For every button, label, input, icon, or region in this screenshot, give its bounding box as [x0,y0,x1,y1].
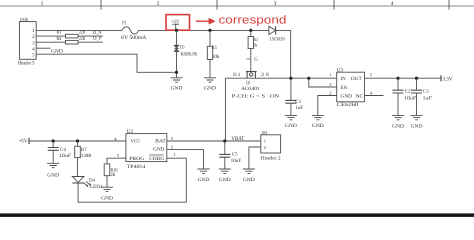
wire pin3 to R4 [36,41,65,43]
wire node D_N [78,35,103,37]
svg-text:GND: GND [171,85,183,91]
svg-text:10uF: 10uF [231,158,242,164]
svg-text:GND: GND [47,172,59,178]
charger U2 [114,129,175,170]
node junction EN [307,77,310,80]
svg-text:R4: R4 [57,36,62,42]
svg-text:GND: GND [153,147,165,153]
svg-text:1: 1 [32,28,35,34]
wire pin2 to R1 [36,35,65,37]
wire pin1 +5V rail [36,29,122,31]
svg-text:1uF: 1uF [295,105,303,111]
node junction C3 [415,77,418,80]
svg-text:2 S: 2 S [261,72,269,78]
svg-text:2: 2 [171,144,173,149]
svg-text:2: 2 [329,90,331,95]
svg-text:GND: GND [312,123,324,129]
svg-text:2: 2 [264,145,266,150]
svg-text:CHRG: CHRG [149,156,164,162]
svg-text:C1: C1 [295,99,301,105]
svg-text:D3: D3 [180,45,185,51]
svg-text:GND: GND [204,85,216,91]
svg-text:CE6260: CE6260 [337,102,359,108]
svg-text:P-CH: G < S ON: P-CH: G < S ON [232,93,280,99]
fuse F1 [121,20,146,41]
svg-text:4: 4 [391,1,394,7]
ground under R10 [101,187,113,201]
svg-text:GND: GND [243,177,255,183]
ground under U2 [198,169,210,183]
svg-text:GND: GND [101,195,113,201]
wire gate G [250,49,252,72]
wire EN link [309,78,337,87]
sheet top border [0,5,474,7]
svg-text:D_N: D_N [93,30,102,36]
svg-text:Q1: Q1 [246,80,251,86]
wire OUT rail [365,77,442,79]
svg-text:D 3: D 3 [233,72,240,78]
red highlight box [166,15,190,31]
svg-text:GND: GND [219,177,231,183]
diode D2 1N5819 [269,26,285,43]
regulator U3 [329,67,373,108]
svg-text:OUT: OUT [351,76,362,82]
svg-text:C5: C5 [232,152,238,158]
svg-text:GND: GND [198,177,210,183]
ground under U3 [312,115,324,128]
ground under JP1 [243,169,255,183]
node junction C2 [396,77,399,80]
svg-text:EN: EN [341,85,348,91]
svg-text:1N5819: 1N5819 [269,37,285,43]
node junction at R3 [249,29,252,32]
svg-text:C4: C4 [60,147,66,153]
pin 1 dash [246,58,250,60]
svg-text:5: 5 [370,72,373,77]
power port +5V top [171,19,179,30]
svg-text:BAT: BAT [155,139,166,145]
svg-text:GND: GND [285,123,297,129]
svg-text:10k: 10k [212,54,220,60]
node junction pin5/D3 [175,71,178,74]
header JP1 [261,131,281,162]
svg-text:6V 500mA: 6V 500mA [121,35,146,41]
svg-text:3.3V: 3.3V [443,77,453,83]
wire U2 GND pin [167,150,204,169]
wire R7 to LED [77,158,79,177]
power port 3.3V [441,75,453,82]
svg-text:D_P: D_P [93,36,102,42]
ground under C5 [219,169,231,183]
svg-text:3: 3 [274,1,277,7]
ground under R5 [204,78,216,92]
zone tick 1 [100,0,102,10]
resistor R7 [75,141,92,159]
resistor R10 [104,164,118,178]
svg-text:C3: C3 [423,89,429,95]
ground under C3 [411,115,423,129]
node junction C4 [52,139,55,142]
connector USB1 [18,17,36,66]
svg-text:VBAT: VBAT [231,136,244,142]
svg-text:22R: 22R [79,30,86,36]
svg-text:GND: GND [51,49,63,55]
svg-text:GND: GND [341,93,353,99]
capacitor C2 [393,78,417,115]
ground under C2 [392,115,404,129]
node junction VBAT [223,139,226,142]
svg-text:AO3401: AO3401 [241,86,260,92]
svg-text:2K: 2K [111,172,116,178]
wire JP1 pin2 to ground [249,147,261,169]
transistor Q1 [232,72,280,100]
wire rail after fuse [138,29,269,31]
node junction C1 [289,77,292,80]
wire R3 top [250,30,252,36]
wire VSYS rail [225,77,336,79]
wire Q1 drain to VBAT [224,78,226,141]
capacitor C4 [48,141,72,163]
red arrow [196,18,216,25]
svg-text:5: 5 [32,52,35,58]
resistor R3 [248,37,258,49]
svg-text:3: 3 [171,136,174,141]
svg-text:22R: 22R [79,36,86,42]
diode D3 TVS [174,45,198,58]
wire LED cathode loop to CHRG [78,158,186,202]
capacitor C5 [219,141,241,169]
svg-text:+5V: +5V [19,139,28,145]
svg-text:3: 3 [32,40,35,46]
wire node D_P [78,41,103,43]
svg-text:330R: 330R [81,153,92,159]
svg-text:2: 2 [157,1,160,7]
svg-text:1: 1 [264,139,266,144]
wire R5 top [209,30,211,46]
resistor R5 [207,45,220,60]
svg-text:5: 5 [117,153,120,158]
capacitor C3 [411,78,432,115]
svg-text:F1: F1 [122,20,127,26]
svg-text:GND: GND [411,123,423,129]
node junction at R5 [208,29,211,32]
svg-text:1: 1 [41,1,44,7]
svg-text:NC: NC [356,93,365,99]
svg-text:10uF: 10uF [404,95,416,101]
wire pin4 GND stub [36,47,50,49]
svg-text:PROG: PROG [129,156,144,162]
svg-text:4: 4 [32,46,35,52]
ground under C1 [285,115,297,128]
svg-text:R3: R3 [253,37,258,43]
zone tick 2 [216,0,218,10]
wire D3 top [176,30,178,45]
svg-text:1k: 1k [253,43,257,49]
wire U3 NC stub [365,95,384,97]
wire U3 GND pin [318,96,337,116]
svg-text:correspond: correspond [219,15,287,27]
svg-text:G: G [254,56,258,62]
zone tick 3 [333,0,335,10]
svg-text:1uF: 1uF [423,95,433,101]
bottom divider bar [0,213,474,217]
svg-text:1: 1 [173,152,175,157]
svg-text:Header 2: Header 2 [261,155,281,161]
wire diode cathode down [276,30,291,78]
svg-text:TP4054: TP4054 [127,164,146,170]
ground under D3 [171,78,183,92]
wire R10 bottom [106,176,108,187]
svg-text:4: 4 [370,90,373,95]
svg-text:RSB6.8S: RSB6.8S [181,51,198,57]
svg-text:GND: GND [392,123,404,129]
power port +5V bottom [19,138,29,145]
ground under C4 [47,163,59,178]
svg-text:R5: R5 [212,45,217,51]
svg-text:C2: C2 [405,89,411,95]
LED D4 [72,177,103,190]
node junction R7 [76,139,79,142]
svg-text:10uF: 10uF [59,153,72,159]
svg-text:JP1: JP1 [262,131,269,137]
svg-text:R7: R7 [81,147,87,153]
svg-text:3: 3 [329,82,332,87]
resistor R1 [57,30,86,38]
node junction at +5V [175,29,178,32]
svg-text:2: 2 [32,34,35,40]
svg-text:VCC: VCC [131,139,142,145]
capacitor C1 [285,78,303,115]
svg-text:Header 5: Header 5 [18,61,35,67]
resistor R4 [57,36,86,44]
wire BAT to JP1 [167,140,261,142]
wire +5V to VCC [29,140,126,142]
wire R5 bottom [209,60,211,78]
wire PROG to R10 [107,158,126,164]
wire D3 bottom [176,51,178,77]
wire pin5 to ground node [36,54,176,72]
svg-text:USB1: USB1 [20,17,29,23]
svg-text:D4: D4 [89,177,95,183]
zone tick 4 [448,0,450,10]
svg-text:R1: R1 [57,30,62,36]
svg-text:1: 1 [329,72,331,77]
svg-text:IN: IN [341,76,347,82]
